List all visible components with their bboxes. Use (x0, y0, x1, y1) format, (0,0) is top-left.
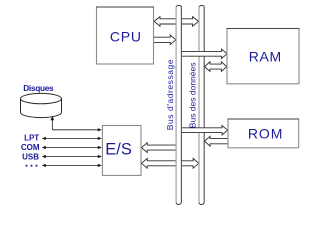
svg-text:Bus des données: Bus des données (187, 62, 197, 128)
block arrow E/S to data bus (bidirectional) (142, 158, 199, 168)
ROM box (228, 119, 299, 148)
disk cylinder (Disques) (21, 93, 62, 117)
block arrow address bus to E/S (142, 143, 176, 153)
svg-text:ROM: ROM (248, 126, 283, 142)
ellipsis ports label (26, 165, 38, 167)
svg-text:USB: USB (22, 153, 39, 162)
svg-text:CPU: CPU (110, 29, 142, 45)
elbow connector E/S to disk (51, 116, 102, 132)
RAM box (227, 29, 299, 84)
svg-text:Bus d'adressage: Bus d'adressage (165, 59, 175, 130)
address bus (vertical) (176, 5, 181, 204)
block arrow address bus to RAM (182, 49, 227, 58)
block arrow ROM to data bus (205, 136, 229, 146)
CPU box (97, 7, 154, 64)
other ports wire arrow (42, 164, 102, 167)
svg-text:LPT: LPT (24, 134, 39, 143)
USB wire arrow (42, 155, 102, 158)
data bus (vertical) (199, 5, 204, 204)
svg-text:RAM: RAM (249, 49, 282, 65)
svg-text:COM: COM (21, 143, 40, 152)
block arrow data bus to RAM (bidirectional) (205, 62, 227, 72)
E/S box (102, 126, 141, 176)
COM wire arrow (42, 146, 102, 149)
block arrow CPU to data bus (bidirectional) (154, 17, 199, 27)
block arrow CPU to address bus (154, 35, 176, 44)
svg-text:Disques: Disques (23, 83, 54, 93)
svg-text:E/S: E/S (105, 140, 132, 158)
block arrow address bus to ROM (182, 126, 228, 135)
LPT wire arrow (42, 137, 102, 140)
